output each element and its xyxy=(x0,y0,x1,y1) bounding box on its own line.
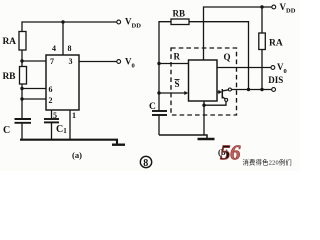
node pin6 junction (a) xyxy=(20,87,23,90)
arrowhead S input (b) xyxy=(184,91,188,95)
transistor Q1 base wire (b) xyxy=(217,91,219,93)
transistor Q1 base bar (b) xyxy=(221,89,223,99)
resistor RA (b) xyxy=(259,33,266,50)
svg-text:V0: V0 xyxy=(125,57,135,70)
transistor Q1 collector (b) xyxy=(222,90,228,91)
node S-wire junction (b) xyxy=(157,91,160,94)
wire Q output / V0 line (b) xyxy=(217,67,271,69)
capacitor C1 (a) xyxy=(44,119,59,122)
figure number circled 8 xyxy=(140,156,151,169)
wire RA bottom lead to DIS (b) xyxy=(261,50,263,90)
svg-text:VDD: VDD xyxy=(125,17,141,30)
wire top rail (b) xyxy=(204,7,273,60)
node RB to DIS junction (b) xyxy=(247,88,250,91)
transistor Q1 emitter (b) xyxy=(222,97,225,99)
wire RB right lead to DIS (b) xyxy=(189,22,249,90)
wire C to ground (b) xyxy=(158,115,160,135)
wire RB left lead to rail (b) xyxy=(159,22,171,111)
node emitter return junction (b) xyxy=(202,104,205,107)
svg-text:8: 8 xyxy=(143,158,148,169)
wire pin3 output (a) xyxy=(79,61,117,63)
wire pin4/8 drop (a) xyxy=(62,22,64,55)
wire pin7 (a) xyxy=(22,60,46,62)
wire ground rail (a) xyxy=(20,140,117,144)
svg-text:6: 6 xyxy=(49,85,53,94)
svg-text:R: R xyxy=(174,52,181,62)
terminal DIS (b) xyxy=(272,88,276,92)
wire RA bottom to node (a) xyxy=(21,50,23,67)
wire DIS line (b) xyxy=(231,89,271,91)
node pin7 junction (a) xyxy=(20,59,23,62)
wire top rail (a) xyxy=(22,22,117,32)
svg-text:VDD: VDD xyxy=(280,2,296,15)
pin bubble emitter (b) xyxy=(225,98,228,101)
wire C to ground rail (a) xyxy=(21,123,23,140)
wire RB bottom rail (a) xyxy=(21,84,23,119)
ground symbol (b) xyxy=(198,138,215,141)
wire pin5 lead (a) xyxy=(51,110,53,119)
dashed box 555 boundary (b) xyxy=(171,48,237,115)
svg-text:(a): (a) xyxy=(72,150,82,160)
transistor Q1 base arrowhead (b) xyxy=(218,90,222,94)
svg-text:V0: V0 xyxy=(277,62,287,75)
capacitor C (b) xyxy=(152,111,167,115)
svg-text:4: 4 xyxy=(52,44,56,53)
svg-text:RB: RB xyxy=(3,72,17,82)
svg-text:Q: Q xyxy=(224,52,231,62)
svg-text:RB: RB xyxy=(173,9,186,19)
terminal V0 (b) xyxy=(271,66,275,70)
svg-text:8: 8 xyxy=(68,44,72,53)
node RA to DIS junction (b) xyxy=(260,88,263,91)
wire emitter return (b) xyxy=(204,101,226,105)
svg-text:DIS: DIS xyxy=(268,75,283,85)
wire S input (b) xyxy=(159,92,185,94)
wire C1 to ground rail (a) xyxy=(51,122,53,139)
terminal VDD (a) xyxy=(117,20,121,24)
ground symbol (a) xyxy=(112,143,125,145)
terminal VDD (b) xyxy=(272,5,276,9)
svg-text:3: 3 xyxy=(69,57,73,66)
wire RA top lead (b) xyxy=(261,7,263,33)
svg-text:RA: RA xyxy=(269,39,283,49)
resistor RB (b) xyxy=(171,19,189,25)
IC flip-flop box (b) xyxy=(189,60,218,101)
capacitor C (a) xyxy=(15,119,32,123)
pin bubble collector (b) xyxy=(228,88,231,91)
svg-text:S: S xyxy=(175,79,180,89)
terminal V0 (a) xyxy=(117,60,121,64)
IC U1 555 box (a) xyxy=(46,55,79,110)
svg-text:消费得色220例们: 消费得色220例们 xyxy=(243,157,292,166)
node RA top junction (b) xyxy=(260,5,263,8)
node junction top rail (a) xyxy=(61,20,64,23)
svg-text:C: C xyxy=(149,102,156,112)
svg-text:C: C xyxy=(3,125,10,136)
svg-text:7: 7 xyxy=(50,57,54,66)
resistor RB (a) xyxy=(20,67,27,85)
wire ground rail (b) xyxy=(159,135,207,138)
wire IC bottom to ground (b) xyxy=(203,101,205,135)
svg-text:RA: RA xyxy=(3,37,17,47)
wire pin2 (a) xyxy=(22,98,46,100)
svg-text:1: 1 xyxy=(72,111,76,120)
wire pin6 (a) xyxy=(22,88,46,90)
wire pin1 lead (a) xyxy=(69,110,71,140)
wire R input (b) xyxy=(159,63,189,65)
node R-wire junction (b) xyxy=(157,62,160,65)
svg-text:5: 5 xyxy=(53,111,57,120)
svg-text:2: 2 xyxy=(49,96,53,105)
svg-text:C1: C1 xyxy=(56,124,67,135)
svg-text:56: 56 xyxy=(220,141,241,165)
node pin2 junction (a) xyxy=(20,97,23,100)
resistor RA (a) xyxy=(19,32,26,51)
